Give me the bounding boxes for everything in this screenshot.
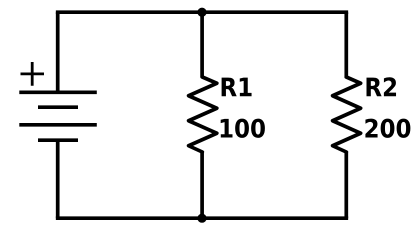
label R2 xyxy=(367,77,397,96)
resistor R1 zigzag body xyxy=(189,77,217,152)
wire top rail (node between battery +, R1 top, R2 top) xyxy=(56,10,348,14)
wire battery positive lead (top-left drop) xyxy=(56,12,60,90)
battery: bottom short plate (negative) xyxy=(38,138,78,142)
battery: top long plate (positive) xyxy=(19,90,97,94)
wire middle branch bottom lead (R1 bottom) xyxy=(200,152,204,219)
value label 200 (R2 resistance) xyxy=(365,119,410,138)
wire right branch bottom lead (R2 bottom) xyxy=(344,152,348,219)
wire battery negative lead (bottom-left rise) xyxy=(56,140,60,218)
junction dot, top node xyxy=(197,8,206,17)
junction dot, bottom node xyxy=(197,214,206,223)
battery: first short plate (negative of cell 1) xyxy=(38,105,78,109)
resistor R2 zigzag body xyxy=(333,77,361,152)
wire bottom rail (node between battery -, R1 bottom, R2 bottom) xyxy=(56,216,348,220)
label R1 xyxy=(222,78,252,97)
battery: second long plate (positive of cell 2) xyxy=(19,123,97,127)
value label 100 (R1 resistance) xyxy=(221,119,265,138)
wire middle branch top lead (R1 top) xyxy=(200,12,204,77)
wire right branch top lead (R2 top) xyxy=(344,12,348,77)
plus polarity marker of battery xyxy=(21,62,45,86)
